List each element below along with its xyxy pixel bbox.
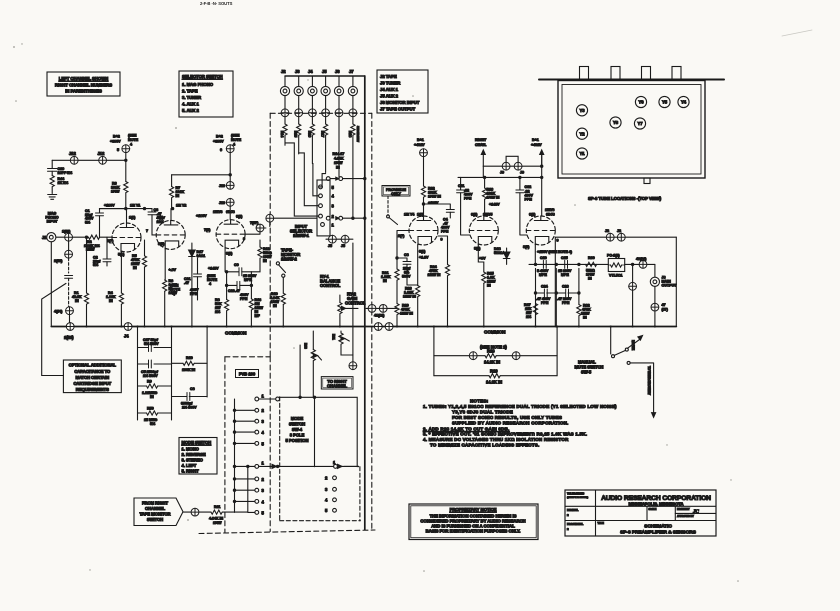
wafer SW-4 body — [280, 396, 358, 467]
svg-text:2. REVERSE: 2. REVERSE — [182, 452, 206, 457]
capacitor C4 — [422, 203, 454, 234]
feedthrough J10 pair — [219, 182, 234, 220]
svg-text:SELECTOR SWITCH: SELECTOR SWITCH — [182, 74, 223, 79]
tube location Y6 — [635, 96, 646, 107]
capacitor C29 + resistor R44 + ground — [48, 160, 74, 199]
svg-text:(SEE: (SEE — [231, 134, 240, 138]
svg-text:C11: C11 — [458, 184, 464, 188]
triode V4 — [398, 213, 443, 260]
svg-text:6(1): 6(1) — [471, 213, 478, 217]
feedthrough J12 — [69, 151, 78, 164]
selector wiper top row — [326, 177, 364, 181]
svg-text:PPH: PPH — [464, 197, 472, 201]
capacitor C5 — [138, 360, 172, 378]
svg-text:PPH: PPH — [562, 301, 570, 305]
capacitor C23 — [225, 281, 251, 301]
svg-text:Y1: Y1 — [579, 151, 585, 156]
supply B+2 no.2 — [172, 134, 242, 182]
svg-text:.47: .47 — [184, 281, 189, 285]
svg-text:TO MINIMIZE CAPACITIVE LOADING: TO MINIMIZE CAPACITIVE LOADING EFFECTS. — [430, 443, 539, 448]
drop with feedthrough — [629, 263, 637, 326]
capacitor C8 — [396, 253, 411, 285]
svg-text:IN: IN — [487, 284, 491, 288]
svg-text:IN: IN — [109, 299, 113, 303]
svg-text:R31: R31 — [332, 334, 336, 340]
svg-text:R50: R50 — [147, 407, 154, 411]
jack J3 — [294, 69, 303, 109]
svg-text:+1.3V: +1.3V — [419, 256, 429, 260]
svg-text:4: 4 — [325, 498, 328, 503]
feedthrough J2 pair — [605, 229, 625, 241]
scan artifact: faint diagonal — [782, 30, 812, 36]
gain control RV-2 — [338, 292, 366, 327]
svg-text:IN: IN — [263, 259, 267, 263]
resistor R5 — [131, 207, 147, 326]
svg-text:3. TUNER: 3. TUNER — [182, 95, 202, 100]
svg-text:2% 500V: 2% 500V — [182, 406, 197, 410]
triode V2 — [146, 216, 185, 250]
svg-text:5. AUX 2: 5. AUX 2 — [182, 108, 199, 113]
wire: top jack bus — [285, 75, 365, 77]
tube location Y5 — [659, 96, 670, 107]
jack J1 — [42, 233, 56, 242]
jack J8 main output — [650, 264, 677, 326]
resistor R24 — [428, 236, 450, 327]
svg-text:RIGHT CHANNEL NUMBERS: RIGHT CHANNEL NUMBERS — [55, 83, 112, 88]
svg-text:2(7): 2(7) — [107, 239, 114, 243]
resistor R29 row — [434, 369, 557, 385]
resistor R6 — [163, 249, 178, 327]
feedthrough pair on bus near RV2 — [374, 323, 382, 331]
svg-text:1/2W IN: 1/2W IN — [428, 273, 441, 277]
svg-text:3: 3 — [262, 488, 265, 493]
svg-text:MPE: MPE — [561, 273, 569, 277]
left contact column vertical — [234, 399, 236, 512]
box PVB 100 — [236, 370, 259, 378]
svg-text:0A91: 0A91 — [197, 254, 206, 258]
svg-text:9: 9 — [441, 238, 443, 242]
svg-text:C9: C9 — [234, 263, 239, 267]
svg-text:+180V: +180V — [104, 204, 115, 208]
svg-text:5. RIGHT: 5. RIGHT — [182, 469, 200, 474]
resistor R26 — [483, 177, 501, 216]
tape monitor switch SW-2 — [276, 248, 300, 278]
svg-text:J10: J10 — [219, 184, 225, 188]
svg-text:4: 4 — [262, 430, 265, 435]
resistor R16 — [307, 117, 314, 163]
svg-text:J3 TUNER: J3 TUNER — [380, 81, 401, 86]
svg-text:1/2SW-2: 1/2SW-2 — [281, 257, 298, 262]
svg-text:4.64K IN: 4.64K IN — [209, 517, 223, 521]
svg-text:1(6): 1(6) — [417, 213, 424, 217]
svg-text:Y7: Y7 — [637, 121, 643, 126]
svg-text:6(1): 6(1) — [157, 216, 164, 220]
svg-text:MF: MF — [255, 314, 261, 318]
svg-text:4: 4 — [332, 194, 335, 199]
svg-text:J2: J2 — [281, 69, 286, 74]
svg-text:TO TIMER CIRCUITRY: TO TIMER CIRCUITRY — [647, 366, 651, 396]
selector wafer body SW-1 — [317, 180, 330, 236]
tube location Y2 — [576, 128, 587, 139]
svg-text:1: 1 — [262, 461, 265, 466]
svg-text:R14: R14 — [280, 131, 284, 139]
jack J7 — [348, 69, 357, 109]
svg-text:1: 1 — [332, 222, 335, 227]
label R14-17 values — [333, 152, 345, 170]
svg-text:IN: IN — [336, 166, 340, 170]
jack J2 — [280, 69, 289, 109]
svg-text:B+2: B+2 — [113, 135, 120, 139]
svg-text:2%: 2% — [526, 315, 532, 319]
svg-text:PROPRIETARY NOTICE: PROPRIETARY NOTICE — [450, 507, 497, 512]
svg-text:R28: R28 — [487, 349, 495, 354]
svg-text:DRAWN BY: DRAWN BY — [677, 508, 690, 511]
svg-text:C26: C26 — [562, 285, 569, 289]
balance pot network — [300, 243, 357, 397]
legend box MODE SWITCH — [179, 438, 217, 475]
svg-text:J4: J4 — [308, 69, 313, 74]
capacitor C32 — [516, 177, 534, 235]
feedthrough 46(66) — [625, 257, 655, 268]
resistor R30 — [586, 256, 597, 281]
provision switch stub — [387, 196, 398, 225]
svg-text:R14-17: R14-17 — [333, 152, 345, 156]
svg-text:2. TAPE: 2. TAPE — [182, 89, 198, 94]
heavy vertical tape-out wire — [364, 76, 366, 530]
svg-text:Y4: Y4 — [681, 100, 687, 105]
svg-text:MPE: MPE — [539, 273, 547, 277]
svg-text:ONLY: ONLY — [391, 192, 401, 196]
svg-text:FROM RIGHT: FROM RIGHT — [142, 501, 168, 506]
svg-text:1/2 Y1: 1/2 Y1 — [130, 204, 140, 208]
feedthrough 1(53) on bus — [64, 323, 74, 340]
svg-text:CHANNEL: CHANNEL — [327, 383, 348, 388]
resistor R50 — [138, 407, 172, 427]
feedthrough pair 7(57) — [245, 214, 317, 234]
svg-text:6DJ8: 6DJ8 — [546, 213, 555, 217]
svg-text:1/2W: 1/2W — [86, 248, 95, 252]
label INPUT SELECTOR — [290, 224, 312, 238]
svg-text:+390V: +390V — [213, 140, 224, 144]
resistor R3 — [111, 182, 128, 209]
wire frame R28/R29 — [434, 327, 557, 376]
photocoupler PC-1 — [607, 254, 625, 278]
capacitor C3 coupling — [100, 208, 166, 235]
svg-text:RIGHT: RIGHT — [475, 138, 487, 142]
svg-text:6(1): 6(1) — [529, 213, 536, 217]
svg-text:R11: R11 — [214, 505, 220, 509]
svg-text:14.2K IN: 14.2K IN — [486, 380, 502, 385]
svg-text:1. TUBES: Y1,2,4,5 E81CC REFER: 1. TUBES: Y1,2,4,5 E81CC REFERENCE DUAL … — [423, 404, 617, 409]
svg-text:IN: IN — [176, 194, 180, 198]
svg-text:R9: R9 — [147, 380, 152, 384]
group2 contacts 2-5 — [233, 477, 264, 516]
svg-text:PPH: PPH — [441, 230, 449, 234]
svg-text:9: 9 — [243, 237, 245, 241]
svg-text:2: 2 — [332, 214, 335, 219]
svg-text:MATCH CERTAIN: MATCH CERTAIN — [76, 375, 110, 380]
svg-text:J4 AUX 1: J4 AUX 1 — [380, 87, 399, 92]
svg-text:IN: IN — [588, 277, 592, 281]
svg-text:SUPPLIED BY AUDIO RESEARCH COR: SUPPLIED BY AUDIO RESEARCH CORPORATION. — [452, 421, 569, 426]
svg-text:1/4W IN: 1/4W IN — [487, 196, 500, 200]
svg-text:±: ± — [567, 527, 569, 531]
svg-text:5891A: 5891A — [494, 251, 505, 255]
svg-text:CARTRIDGE INPUT: CARTRIDGE INPUT — [73, 381, 111, 386]
resistor R8 — [215, 249, 229, 327]
bus junction dots — [85, 325, 656, 327]
svg-text:4. LEFT: 4. LEFT — [182, 463, 197, 468]
svg-text:+.8V: +.8V — [169, 268, 177, 272]
svg-text:IN: IN — [583, 316, 587, 320]
svg-text:TAPE MONITOR: TAPE MONITOR — [140, 512, 171, 517]
svg-text:4. AUX 1: 4. AUX 1 — [182, 102, 199, 107]
svg-text:1: 1 — [262, 394, 265, 399]
svg-text:14.2K IN: 14.2K IN — [484, 360, 500, 365]
svg-text:1/2W IN: 1/2W IN — [400, 312, 413, 316]
svg-text:C32: C32 — [525, 185, 532, 189]
svg-text:5: 5 — [262, 510, 265, 515]
note box: LEFT CHANNEL SHOWN — [47, 72, 120, 96]
svg-text:4: 4 — [130, 143, 133, 147]
svg-text:5%: 5% — [93, 263, 99, 267]
svg-text:R18: R18 — [348, 131, 352, 138]
svg-text:C6: C6 — [190, 387, 195, 391]
capacitor C2 — [93, 237, 111, 267]
svg-text:SP-8 PREAMPLIFIER & SENSORS: SP-8 PREAMPLIFIER & SENSORS — [620, 529, 697, 535]
svg-text:1/2SW-1: 1/2SW-1 — [293, 233, 310, 238]
svg-text:+150V (SEE NOTE 4): +150V (SEE NOTE 4) — [537, 250, 573, 254]
svg-text:IN: IN — [273, 304, 277, 308]
svg-text:6(1): 6(1) — [236, 215, 243, 219]
capacitor C25 — [558, 256, 572, 277]
label MAG PHONO INPUT — [45, 212, 58, 224]
svg-text:R16: R16 — [307, 131, 311, 138]
triode V3 — [204, 210, 245, 256]
svg-text:REQUIREMENTS: REQUIREMENTS — [76, 387, 109, 392]
svg-text:MUTE: MUTE — [631, 340, 635, 351]
selector staircase wires — [285, 143, 319, 216]
svg-text:8(3): 8(3) — [474, 247, 481, 251]
svg-text:MODE: MODE — [291, 416, 304, 421]
svg-text:(EXCEPT AS NOTED): (EXCEPT AS NOTED) — [567, 496, 588, 499]
svg-text:+402V: +402V — [414, 143, 425, 147]
svg-text:±: ± — [567, 513, 569, 517]
svg-text:CHAN.: CHAN. — [475, 143, 486, 147]
svg-text:J7 TAPE OUTPUT: J7 TAPE OUTPUT — [380, 107, 416, 112]
capacitor C6 — [172, 387, 208, 410]
svg-text:PPH: PPH — [541, 301, 549, 305]
svg-text:4: 4 — [262, 499, 265, 504]
svg-text:SCHEMATIC: SCHEMATIC — [644, 524, 672, 530]
svg-text:1/4W IN: 1/4W IN — [428, 195, 441, 199]
svg-text:+390V: +390V — [110, 140, 121, 144]
svg-text:+180V: +180V — [196, 214, 207, 218]
tube location Y7 — [634, 118, 645, 129]
svg-text:R30: R30 — [588, 256, 595, 260]
svg-text:1/2Y3: 1/2Y3 — [213, 210, 222, 214]
svg-text:8(3): 8(3) — [523, 245, 530, 249]
svg-text:SCALE: SCALE — [649, 508, 657, 511]
svg-text:IN: IN — [150, 395, 154, 399]
feedthrough 47(67) — [651, 303, 669, 312]
capacitor C26 — [556, 285, 579, 306]
right deck contacts 2-5 — [325, 476, 336, 514]
svg-text:IN PARENTHESES: IN PARENTHESES — [65, 89, 102, 94]
svg-text:Y5: Y5 — [662, 100, 668, 105]
svg-text:J10: J10 — [219, 201, 225, 205]
svg-text:VTL5C1: VTL5C1 — [609, 274, 622, 278]
svg-text:5%: 5% — [150, 422, 156, 426]
svg-text:7(57): 7(57) — [250, 221, 259, 225]
box OPTIONAL ADDITIONAL — [63, 360, 121, 393]
svg-text:5110 IN 1/4W: 5110 IN 1/4W — [356, 126, 360, 142]
svg-text:SW-4: SW-4 — [292, 427, 303, 432]
svg-text:J12: J12 — [69, 151, 77, 156]
selector contacts 5,4,3,2,1 — [319, 185, 335, 190]
labels +145V see note 4 — [207, 267, 219, 287]
svg-text:1/2W IN: 1/2W IN — [403, 295, 416, 299]
svg-text:J5: J5 — [322, 69, 327, 74]
svg-text:J6: J6 — [335, 69, 340, 74]
svg-text:BASIS FOR IDENTIFICATION PURPO: BASIS FOR IDENTIFICATION PURPOSES ONLY. — [426, 529, 521, 534]
tube location Y8 — [610, 117, 621, 128]
svg-text:3: 3 — [325, 487, 328, 492]
supply B+1 — [414, 138, 427, 186]
svg-text:2(7): 2(7) — [398, 234, 405, 238]
svg-text:1. MAG PHONO: 1. MAG PHONO — [182, 82, 214, 87]
resistor R23 — [403, 245, 420, 327]
svg-text:1(6): 1(6) — [129, 216, 136, 220]
group1 contacts — [233, 394, 279, 447]
svg-text:R33: R33 — [304, 343, 308, 349]
svg-text:5: 5 — [262, 441, 265, 446]
resistor R20 — [395, 304, 413, 327]
legend box: SELECTOR SWITCH — [179, 71, 233, 117]
svg-text:1/4W: 1/4W — [111, 190, 120, 194]
svg-text:Y2: Y2 — [579, 131, 585, 136]
svg-text:3. STEREO: 3. STEREO — [182, 458, 204, 463]
svg-text:3 POLE: 3 POLE — [290, 433, 305, 438]
tube location Y4 — [678, 96, 689, 107]
resistor R27 — [524, 303, 538, 327]
svg-text:2%: 2% — [215, 310, 221, 314]
svg-text:7: 7 — [146, 229, 148, 233]
svg-text:PVB 100: PVB 100 — [239, 372, 256, 377]
svg-text:(67): (67) — [662, 308, 669, 312]
svg-text:4.64K: 4.64K — [334, 157, 344, 161]
svg-text:LEFT CHANNEL SHOWN: LEFT CHANNEL SHOWN — [59, 76, 108, 81]
svg-text:PC-1(2): PC-1(2) — [607, 254, 620, 258]
svg-text:DECIMAL: DECIMAL — [567, 508, 579, 512]
triode V5 — [469, 213, 498, 261]
capacitor C11 — [457, 177, 473, 235]
svg-text:NOTES:: NOTES: — [470, 399, 489, 404]
right edge corner down to bus — [675, 237, 677, 326]
resistor R28 row — [434, 349, 557, 365]
label RIGHT CHAN arrow — [475, 138, 487, 166]
triode V1 — [107, 216, 141, 257]
svg-text:J5: J5 — [328, 244, 332, 248]
svg-text:8(3): 8(3) — [226, 252, 233, 256]
svg-text:2-F-B -N- SOUTS: 2-F-B -N- SOUTS — [200, 1, 233, 6]
svg-text:NOTE: NOTE — [231, 138, 242, 142]
box PROVISION ONLY — [382, 186, 410, 197]
resistor R14 — [280, 117, 287, 146]
svg-text:2: 2 — [262, 408, 265, 413]
group2 contacts row 1 — [233, 460, 358, 468]
svg-text:5: 5 — [332, 185, 335, 190]
svg-text:C23: C23 — [228, 289, 235, 293]
supply B+1 right — [531, 138, 544, 216]
svg-text:PPH: PPH — [190, 292, 198, 296]
svg-text:J12: J12 — [98, 151, 106, 156]
feedthrough J9 pair with jumper — [483, 156, 543, 174]
supply B+2 no.1 — [110, 134, 139, 182]
legend box: jack list J2-J7 — [377, 70, 428, 113]
svg-text:CONTROL: CONTROL — [345, 301, 366, 306]
svg-text:1/2Y5: 1/2Y5 — [483, 213, 492, 217]
svg-text:5% 500V: 5% 500V — [144, 342, 159, 346]
resistor R10 — [172, 356, 208, 372]
capacitor C21 coupling — [170, 258, 202, 300]
tube location Y1 — [576, 148, 587, 159]
svg-text:19PF 5%: 19PF 5% — [58, 171, 74, 175]
triode V6 — [523, 208, 559, 249]
svg-text:Y3: Y3 — [579, 108, 585, 113]
svg-text:B+2: B+2 — [216, 135, 223, 139]
svg-text:SWITCH: SWITCH — [147, 517, 163, 522]
svg-text:C24: C24 — [541, 285, 549, 289]
svg-text:1/2 Y4: 1/2 Y4 — [404, 213, 415, 217]
svg-text:COMMON: COMMON — [484, 330, 506, 335]
resistor R62 — [577, 293, 591, 327]
svg-text:47: 47 — [662, 303, 666, 307]
box TO RIGHT CHANNEL — [321, 377, 353, 389]
resistor R9 — [138, 380, 172, 400]
svg-text:COMMON: COMMON — [225, 331, 247, 336]
svg-text:TITLE: TITLE — [598, 522, 605, 525]
svg-text:3: 3 — [262, 419, 265, 424]
svg-text:3: 3 — [332, 204, 335, 209]
svg-text:9: 9 — [557, 239, 559, 243]
jack J5 — [321, 69, 330, 109]
wafer dashed enclosure — [279, 397, 281, 521]
feedthrough 1(51) — [62, 230, 73, 242]
feedthrough J4 on bus — [124, 323, 132, 339]
resistor R2 — [84, 235, 100, 252]
svg-text:500V: 500V — [402, 275, 411, 279]
svg-text:J9: J9 — [500, 171, 504, 175]
wire J5 row — [326, 235, 353, 248]
resistor R22 — [421, 186, 441, 216]
svg-text:100K IN: 100K IN — [182, 368, 196, 372]
svg-text:J2 TAPE: J2 TAPE — [380, 74, 397, 79]
resistor R11 — [199, 466, 248, 525]
svg-text:1(51): 1(51) — [62, 230, 71, 234]
svg-text:3. * EFFECTIVE OCT. '81 SONIC: 3. * EFFECTIVE OCT. '81 SONIC IMPROVEMEN… — [423, 432, 587, 437]
svg-text:Y6: Y6 — [638, 100, 644, 105]
svg-text:CAPACITANCE TO: CAPACITANCE TO — [74, 369, 111, 374]
svg-text:J6 MONITOR INPUT: J6 MONITOR INPUT — [380, 100, 420, 105]
svg-text:4: 4 — [209, 282, 212, 286]
svg-text:4(54): 4(54) — [54, 310, 63, 314]
switch arm to optional cap box — [42, 283, 66, 375]
svg-text:R15: R15 — [294, 131, 298, 138]
svg-text:NOTE: NOTE — [128, 138, 139, 142]
svg-text:J2: J2 — [617, 229, 621, 233]
feedthrough 2(52) + muting cap branch — [54, 241, 73, 326]
